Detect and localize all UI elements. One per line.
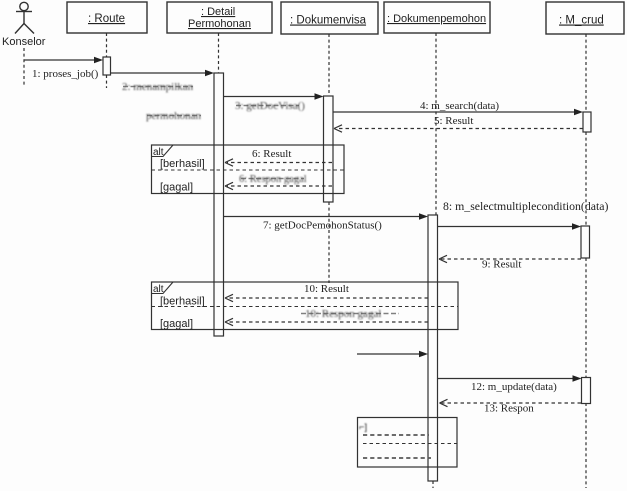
fragment frame bottom	[358, 418, 458, 468]
message 13 Respon return (dashed)	[442, 402, 582, 404]
svg-text:6: Respon gagal: 6: Respon gagal	[239, 174, 307, 185]
lifeline Detail Permohonan (dashed)	[218, 33, 220, 73]
message 11 unlabeled arrow	[357, 353, 420, 355]
activation M_crud 3	[582, 378, 591, 404]
svg-text:[gagal]: [gagal]	[160, 318, 193, 330]
lifeline Dokumenvisa (dashed)	[328, 34, 330, 96]
message 2 menampilkan arrow	[111, 72, 207, 74]
svg-text:9: Result: 9: Result	[482, 259, 521, 271]
svg-text:7: getDocPemohonStatus(): 7: getDocPemohonStatus()	[263, 220, 382, 232]
fragment dashed row 1	[363, 434, 429, 436]
fragment dashed row 3	[363, 457, 431, 459]
svg-text:: M_crud: : M_crud	[559, 15, 604, 27]
svg-text:10: Result: 10: Result	[304, 283, 349, 295]
svg-text:6: Result: 6: Result	[252, 148, 291, 160]
svg-text:13: Respon: 13: Respon	[484, 403, 534, 415]
object box Dokumenvisa	[281, 2, 378, 34]
alt frame 1 pentagon	[152, 145, 174, 157]
message 9 Result return (dashed)	[441, 258, 581, 260]
activation Route	[103, 57, 111, 75]
svg-text:[berhasil]: [berhasil]	[160, 296, 205, 308]
svg-text:1: proses_job(): 1: proses_job()	[32, 68, 99, 80]
object box M_crud	[546, 2, 624, 34]
message 10 Result return (dashed)	[227, 297, 428, 299]
message 6 Result return (dashed)	[227, 162, 332, 164]
svg-text:[berhasil]: [berhasil]	[160, 158, 205, 170]
alt frame 2 separator (dashed)	[152, 306, 459, 308]
svg-text:8: m_selectmultiplecondition(d: 8: m_selectmultiplecondition(data)	[443, 199, 609, 213]
message 8 m_selectmultiplecondition arrow	[438, 226, 574, 228]
lifeline Dokumenpemohon (dashed)	[435, 33, 437, 215]
message 5 Result return (dashed)	[336, 128, 583, 130]
object box Detail Permohonan	[167, 2, 272, 33]
alt frame 1	[152, 145, 345, 194]
message 12 m_update arrow	[438, 378, 574, 380]
svg-text:: Dokumenvisa: : Dokumenvisa	[290, 15, 367, 27]
svg-text:⌐]: ⌐]	[359, 422, 367, 433]
alt frame 1 separator (dashed)	[152, 169, 345, 171]
lifeline Konselor (dashed)	[23, 48, 25, 87]
object box Dokumenpemohon	[384, 2, 490, 33]
message 7 getDocPemohonStatus arrow	[224, 216, 421, 218]
message 6 Respon gagal return (dashed)	[227, 185, 332, 187]
svg-text:alt: alt	[153, 147, 164, 158]
svg-text:: Detail: : Detail	[201, 6, 235, 18]
alt frame 2 pentagon	[152, 282, 174, 294]
svg-text:5: Result: 5: Result	[434, 115, 473, 127]
object box Route	[67, 2, 147, 33]
lifeline Route (dashed)	[106, 33, 108, 57]
message 4 m_search arrow	[333, 111, 575, 113]
svg-text:alt: alt	[153, 284, 164, 295]
svg-text:Permohonan: Permohonan	[188, 18, 251, 30]
svg-text:12: m_update(data): 12: m_update(data)	[471, 381, 557, 393]
lifeline M_crud (dashed)	[585, 34, 587, 112]
svg-text:[gagal]: [gagal]	[160, 182, 193, 194]
svg-text:Konselor: Konselor	[2, 36, 46, 48]
actor Konselor	[15, 2, 34, 33]
fragment dashed row 2	[363, 443, 457, 445]
message 1 proses_job arrow	[25, 59, 96, 61]
activation Dokumenpemohon	[428, 215, 438, 481]
message 10 Respon gagal return (dashed)	[227, 321, 428, 323]
activation M_crud 2	[581, 226, 590, 258]
activation M_crud 1	[583, 112, 591, 132]
activation Detail Permohonan	[214, 73, 224, 336]
alt frame 2	[152, 282, 459, 330]
activation Dokumenvisa	[324, 96, 334, 202]
svg-text:: Route: : Route	[88, 13, 125, 25]
svg-text:: Dokumenpemohon: : Dokumenpemohon	[387, 13, 486, 25]
message 3 getDocVisa arrow	[224, 96, 317, 98]
svg-text:4: m_search(data): 4: m_search(data)	[420, 100, 499, 112]
